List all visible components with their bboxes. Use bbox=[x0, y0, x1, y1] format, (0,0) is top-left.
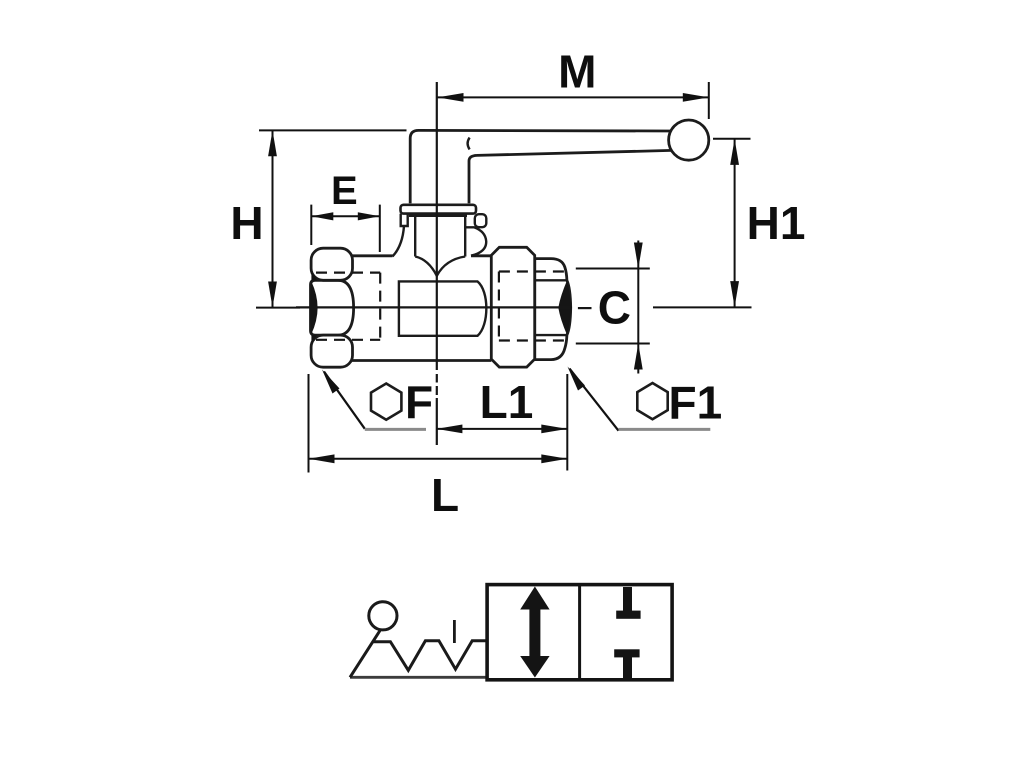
dim M left arrow bbox=[438, 93, 464, 102]
svg-text:C: C bbox=[598, 282, 631, 334]
dim C vertical bbox=[637, 241, 639, 374]
svg-text:M: M bbox=[558, 46, 596, 98]
handle stem right edge bbox=[469, 155, 477, 203]
left nut bottom wedge bbox=[311, 335, 317, 345]
hexagon F bbox=[371, 384, 401, 420]
dim L1 right extension bbox=[566, 374, 568, 471]
dim E ticks bbox=[311, 205, 380, 252]
lever lower edge bbox=[477, 150, 672, 155]
bonnet right fillet bbox=[465, 227, 486, 255]
ball chamber bbox=[399, 281, 486, 335]
handle stem left edge bbox=[410, 130, 418, 203]
bonnet plate shadow bbox=[409, 214, 467, 217]
body bottom edge bbox=[351, 359, 492, 362]
svg-text:F1: F1 bbox=[669, 377, 723, 429]
horizontal centerline bbox=[296, 306, 572, 308]
symbol lever knob circle bbox=[369, 602, 397, 630]
svg-text:L: L bbox=[431, 469, 459, 521]
symbol flow arrow top head bbox=[520, 587, 549, 610]
symbol flow arrow bottom head bbox=[520, 656, 549, 678]
svg-text:H: H bbox=[230, 197, 263, 249]
lever joint arc bbox=[468, 138, 470, 150]
union nut lobe lines bbox=[535, 280, 567, 335]
symbol blocked port bottom T bbox=[614, 649, 639, 657]
dim H bottom extension bbox=[256, 307, 300, 309]
dim H1 line bbox=[734, 140, 736, 307]
left nut top lobe bbox=[311, 248, 352, 280]
leader F line bbox=[324, 372, 365, 429]
bonnet right lug bbox=[475, 214, 487, 227]
body top edge left bbox=[351, 254, 393, 257]
dim M right extension bbox=[708, 82, 710, 119]
dim H1 top extension bbox=[713, 138, 751, 140]
neck left wall bbox=[414, 214, 416, 257]
dim H bottom arrow bbox=[268, 282, 277, 308]
leader F gray line bbox=[365, 428, 426, 431]
symbol baseline bbox=[350, 676, 488, 679]
dim C bottom line bbox=[576, 343, 650, 345]
dim C top line bbox=[576, 268, 650, 270]
leader F1 gray line bbox=[619, 428, 711, 431]
union flange bbox=[491, 247, 534, 367]
centerline dash near C bbox=[578, 307, 592, 309]
dim E right arrow bbox=[358, 212, 380, 220]
hexagon F1 bbox=[637, 383, 667, 419]
body top edge right bbox=[471, 254, 491, 257]
left nut middle lobe bbox=[311, 280, 354, 335]
dim L right arrow bbox=[541, 454, 567, 463]
symbol box divider bbox=[578, 585, 581, 680]
dim L left arrow bbox=[309, 454, 335, 463]
union nut shading crescent bbox=[558, 281, 570, 335]
symbol lever triangle and spring bbox=[350, 631, 488, 678]
neck bore curve bbox=[415, 257, 465, 276]
valve body fill bbox=[351, 256, 491, 360]
union nut bbox=[535, 259, 571, 360]
dim H line bbox=[272, 131, 274, 307]
svg-text:L1: L1 bbox=[480, 376, 534, 428]
bonnet left fillet bbox=[393, 226, 405, 256]
bonnet left tab bbox=[401, 214, 408, 226]
svg-text:E: E bbox=[331, 169, 358, 213]
dim L1 right arrow bbox=[541, 425, 567, 434]
dim L1 line bbox=[436, 428, 567, 430]
left port thread dashed bbox=[316, 273, 380, 340]
dim H1 bottom arrow bbox=[730, 281, 739, 307]
dim L left extension bbox=[308, 374, 310, 473]
left nut top wedge bbox=[311, 271, 317, 281]
lever upper edge bbox=[419, 129, 673, 132]
symbol detent tick bbox=[453, 620, 456, 643]
dim M line bbox=[438, 96, 709, 98]
symbol valve boxes bbox=[487, 585, 672, 680]
symbol flow arrow shaft bbox=[529, 604, 540, 660]
dim E line bbox=[311, 215, 380, 217]
dim C top arrow bbox=[634, 243, 643, 269]
bonnet plate bbox=[401, 205, 477, 214]
dim H1 top arrow bbox=[730, 139, 739, 165]
leader F arrow bbox=[322, 370, 340, 394]
neck right wall bbox=[464, 214, 466, 257]
left nut bottom lobe bbox=[311, 335, 352, 367]
left nut shading crescent bbox=[310, 281, 318, 335]
right port thread dashed bbox=[499, 272, 567, 341]
leader F1 arrow bbox=[568, 367, 586, 391]
dim L1 left arrow bbox=[436, 425, 462, 434]
lever ball knob bbox=[669, 120, 709, 160]
dim C bottom arrow bbox=[634, 344, 643, 370]
dim M right arrow bbox=[683, 93, 709, 102]
dim H top extension bbox=[259, 129, 407, 131]
svg-text:H1: H1 bbox=[747, 197, 806, 249]
svg-text:F: F bbox=[405, 376, 433, 428]
vertical centerline bbox=[436, 82, 438, 370]
dim H top arrow bbox=[268, 130, 277, 156]
dim L line bbox=[309, 458, 568, 460]
leader F1 line bbox=[570, 369, 619, 431]
dim E left arrow bbox=[311, 212, 333, 220]
dim H1 bottom extension bbox=[653, 306, 752, 308]
symbol blocked port top T bbox=[623, 587, 632, 614]
